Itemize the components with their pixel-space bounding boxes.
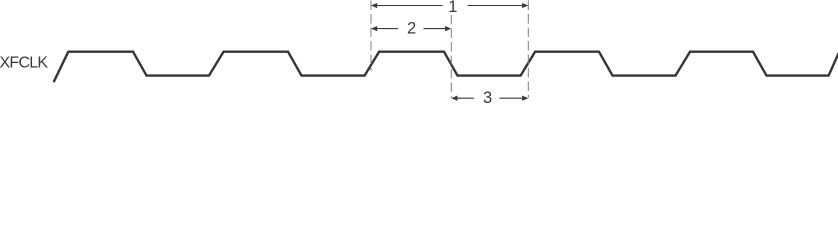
dimension arrow 2 (pulse duration high) [377, 28, 447, 30]
svg-text:1: 1 [448, 0, 457, 16]
node extension line B (falling edge) [450, 15, 452, 98]
svg-text:2: 2 [407, 20, 416, 38]
svg-text:XFCLK: XFCLK [0, 55, 48, 72]
dimension arrow 3 (pulse duration low) [456, 97, 523, 99]
node extension line A (first rising edge) [370, 1, 372, 72]
wire XFCLK clock waveform [54, 52, 838, 82]
svg-text:3: 3 [483, 89, 492, 106]
node extension line C (next rising edge) [527, 1, 529, 99]
dimension arrow 1 (cycle time) [377, 5, 524, 7]
